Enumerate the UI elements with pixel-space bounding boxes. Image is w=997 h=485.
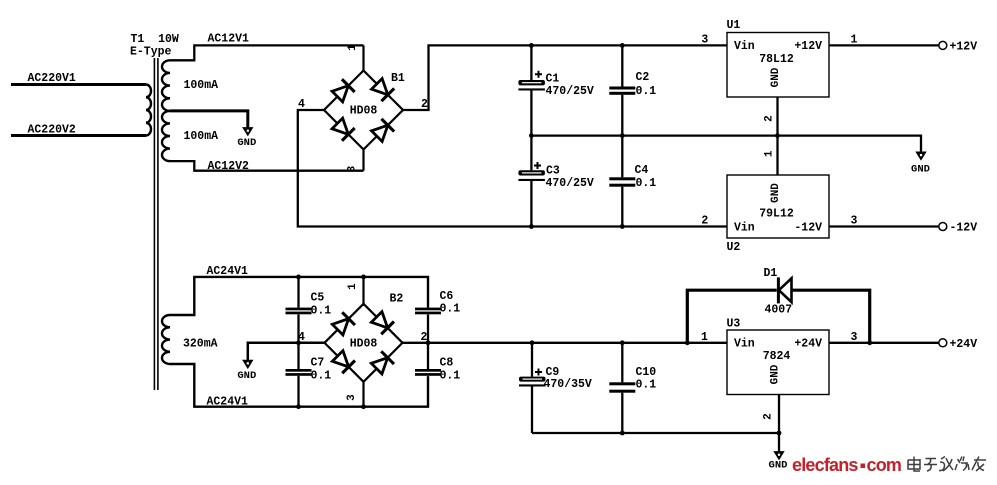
bridge rectifier B2 HD08 diamond [325,304,403,382]
B2 reference label [390,293,404,306]
ground right of U1 [911,152,930,176]
wire AC24V1 bottom rail [170,364,428,407]
pin number 3 of B2 (rotated) [346,394,358,401]
svg-text:2: 2 [701,215,708,228]
transformer T1 label [130,33,179,59]
label 320mA [183,338,218,351]
svg-text:1: 1 [851,34,858,47]
pin number 1 of U3 [701,331,708,344]
B1 diode bottom-left [331,117,355,141]
svg-text:78L12: 78L12 [759,53,794,66]
svg-text:0.1: 0.1 [311,305,332,318]
B1 diode top-left [331,79,355,103]
svg-text:GND: GND [237,137,256,149]
svg-text:GND: GND [911,164,930,176]
svg-text:1: 1 [763,150,775,157]
junction dots upper section [529,43,780,229]
regulator U3 7824 box [727,318,830,395]
label 100mA upper [184,79,219,92]
svg-text:HD08: HD08 [350,338,378,351]
svg-text:elecfans: elecfans [792,455,858,475]
pin number 2 of U2 [701,215,708,228]
pin number 3 of U2 [851,215,858,228]
svg-text:0.1: 0.1 [636,85,657,98]
watermark chinese characters 电子发烧友 [908,457,986,472]
svg-text:HD08: HD08 [350,105,378,118]
transformer T1 secondary winding 1 (100mA) [162,60,170,111]
svg-text:C3: C3 [546,165,560,178]
wire U3 pin3 to +24V terminal [829,342,938,344]
capacitor C10 0.1 [609,343,656,433]
svg-text:com: com [867,455,902,475]
wire B2 pin4 to ground stub [248,343,325,361]
node AC220V1 label [28,72,76,85]
svg-text:0.1: 0.1 [636,177,657,190]
pin number 1 of B1 (rotated) [347,44,359,51]
svg-text:C5: C5 [311,292,325,305]
pin number 1 of U1 [851,34,858,47]
svg-text:AC220V1: AC220V1 [28,72,76,85]
svg-text:AC12V2: AC12V2 [208,160,250,173]
B2 diode bottom-right [370,351,394,375]
svg-text:3: 3 [347,165,359,172]
svg-text:3: 3 [851,215,858,228]
svg-text:3: 3 [851,331,858,344]
pin number 1 of B2 (rotated) [347,283,359,290]
svg-text:AC12V1: AC12V1 [208,33,250,46]
wire center tap to ground [170,111,248,128]
svg-text:Vin: Vin [734,221,755,234]
svg-text:3: 3 [701,34,708,47]
pin number 2 of U3 (rotated) [763,413,775,420]
wire U2 pin3 to -12V terminal [829,225,938,227]
transformer T1 primary lead AC220V1 wire [11,83,146,86]
wire U2 pin1 GND riser [776,136,778,175]
svg-text:U2: U2 [727,241,741,254]
svg-text:U1: U1 [727,19,741,32]
capacitor C2 0.1 [609,45,656,135]
svg-text:100mA: 100mA [184,130,219,143]
bridge rectifier B1 HD08 diamond [324,71,403,150]
transformer T1 primary lead AC220V2 wire [11,134,146,137]
node AC24V1 top label [207,265,249,278]
svg-text:U3: U3 [727,318,741,331]
pin number 3 of B1 (rotated) [347,165,359,172]
wire B1 pin4 to negative rail [298,110,727,227]
svg-text:0.1: 0.1 [636,379,657,392]
wire U1 pin1 to +12V terminal [829,44,938,46]
svg-text:4007: 4007 [765,304,793,317]
svg-text:2: 2 [763,413,775,420]
wire U1 pin2 GND drop [776,97,778,136]
regulator U1 78L12 box [727,19,830,97]
svg-text:+24V: +24V [950,338,978,351]
transformer T1 primary winding [146,85,151,136]
B2 diode top-left [331,312,355,336]
capacitor C8 0.1 [415,343,460,383]
svg-text:C4: C4 [635,164,649,177]
svg-text:+12V: +12V [794,40,822,53]
capacitor C3 470/25V electrolytic [518,136,594,227]
wire AC24V1 top rail [170,277,428,315]
svg-text:AC220V2: AC220V2 [28,124,76,137]
svg-text:2: 2 [763,115,775,122]
svg-text:T1 10W: T1 10W [131,33,179,46]
svg-text:GND: GND [769,460,788,472]
svg-text:470/25V: 470/25V [546,85,594,98]
svg-text:2: 2 [421,98,428,111]
wire B1 pin3 stub [362,149,364,171]
svg-text:Vin: Vin [734,40,755,53]
wire middle GND rail [531,136,921,153]
svg-text:+12V: +12V [950,41,978,54]
svg-text:C6: C6 [440,290,454,303]
svg-text:3: 3 [346,394,358,401]
wire B1 pin1 stub [362,45,364,70]
svg-text:B2: B2 [390,293,404,306]
svg-text:0.1: 0.1 [440,370,461,383]
svg-text:+24V: +24V [794,338,822,351]
pin number 1 of U2 (rotated) [763,150,775,157]
svg-text:0.1: 0.1 [440,303,461,316]
B1 diode top-right [370,77,394,101]
B1 diode bottom-right [370,119,394,143]
terminal +12V [939,41,977,54]
svg-text:AC24V1: AC24V1 [207,396,249,409]
diode D1 4007 [764,267,793,317]
svg-text:470/25V: 470/25V [546,177,594,190]
ground center tap [237,128,256,149]
capacitor C4 0.1 [609,136,656,227]
wire B2 pin3 stub [362,380,364,407]
junction dots lower section [296,275,872,436]
terminal -12V [939,222,977,235]
elecfans.com logo (red) [792,455,901,475]
capacitor C9 470/35V electrolytic [519,343,592,433]
svg-text:1: 1 [347,44,359,51]
B2 diode bottom-left [331,350,355,374]
wire AC12V1 rail from secondary top to bridge B1 pin1 [170,45,364,60]
svg-text:GND: GND [770,364,782,384]
capacitor C7 0.1 [286,343,332,407]
pin number 4 of B1 [298,98,305,111]
svg-text:1: 1 [347,283,359,290]
svg-text:100mA: 100mA [184,79,219,92]
B2 value label HD08 [350,338,378,351]
wire D1 loop left riser [687,290,776,343]
wire B2 pin2 positive rail to U3 [403,342,728,344]
pin number 2 of B2 [421,331,428,344]
node AC12V2 label [208,160,250,173]
pin number 3 of U3 [851,331,858,344]
B1 value label HD08 [350,105,378,118]
wire lower ground rail [532,432,779,434]
svg-text:C7: C7 [311,357,325,370]
wire AC12V2 rail from secondary bottom to bridge B1 pin3 [170,161,364,171]
svg-text:-12V: -12V [950,222,978,235]
capacitor C1 470/25V electrolytic [518,45,594,135]
svg-text:AC24V1: AC24V1 [207,265,249,278]
svg-text:0.1: 0.1 [311,370,332,383]
wire B1 pin2 to positive rail [403,45,727,110]
svg-text:470/35V: 470/35V [544,378,592,391]
svg-text:C1: C1 [546,73,560,86]
transformer T1 core [154,58,158,390]
B2 diode top-right [370,311,394,335]
regulator U2 79L12 box [727,175,830,254]
node AC12V1 label [208,33,250,46]
svg-text:C10: C10 [636,366,657,379]
pin number 2 of U1 (rotated) [763,115,775,122]
svg-text:E-Type: E-Type [130,46,172,59]
node AC24V1 bottom label [207,396,249,409]
svg-text:79L12: 79L12 [759,208,794,221]
svg-text:C8: C8 [440,357,454,370]
wire U3 pin2 GND drop [778,395,780,453]
svg-text:320mA: 320mA [183,338,218,351]
pin number 4 of B2 [298,331,305,344]
svg-text:B1: B1 [391,72,405,85]
svg-text:7824: 7824 [763,350,791,363]
svg-text:GND: GND [770,183,782,203]
ground B2 negative [237,360,256,382]
svg-text:1: 1 [701,331,708,344]
svg-text:-12V: -12V [794,221,822,234]
svg-text:C9: C9 [546,366,560,379]
wire B2 pin1 stub [362,277,364,306]
capacitor C5 0.1 [286,277,332,343]
pin number 2 of B1 [421,98,428,111]
svg-text:Vin: Vin [734,338,755,351]
transformer T1 secondary winding 3 (320mA) [162,315,170,364]
node AC220V2 label [28,124,76,137]
B1 reference label [391,72,405,85]
svg-text:C2: C2 [636,71,650,84]
pin number 3 of U1 [701,34,708,47]
ground U3 [769,452,788,472]
svg-text:GND: GND [237,370,256,382]
wire D1 loop right riser [792,290,870,343]
capacitor C6 0.1 [415,290,460,343]
transformer T1 secondary winding 2 (100mA) [162,111,170,161]
svg-text:GND: GND [770,67,782,87]
svg-text:D1: D1 [764,267,778,280]
svg-text:4: 4 [298,98,305,111]
terminal +24V [939,338,977,351]
label 100mA lower [184,130,219,143]
